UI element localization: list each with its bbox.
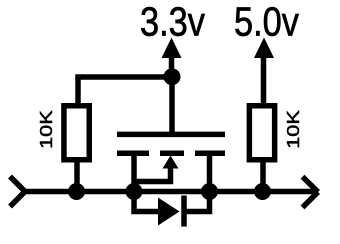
wire: body to source (134, 166, 171, 182)
transistor Q1 gate plate (117, 132, 225, 138)
wire: D1 cathode to drain (184, 192, 210, 212)
svg-text:10K: 10K (36, 110, 56, 149)
transistor Q1 source lead (131, 153, 137, 191)
input arrow (left end of signal line) (10, 177, 25, 207)
3.3v supply arrow (162, 38, 182, 78)
diode D1 (body diode) (158, 196, 184, 227)
5.0v supply arrow (254, 38, 274, 59)
wire: R2 top to 5.0v arrow (261, 58, 267, 103)
transistor Q1 drain lead (207, 153, 213, 191)
svg-text:10K: 10K (283, 110, 303, 149)
svg-text:5.0v: 5.0v (234, 0, 299, 45)
wire: gate stub (junction down to gate plate) (169, 77, 175, 137)
resistor R1 (64, 106, 89, 160)
node: drain junction (201, 183, 218, 200)
transistor Q1 body arrow (163, 156, 179, 169)
node: source junction (126, 183, 143, 200)
wire: R1 bottom to signal line (74, 160, 80, 192)
wire: source down to D1 anode (134, 192, 158, 212)
transistor Q1 channel segments (117, 151, 225, 157)
output arrow (right end of signal line) (303, 177, 319, 208)
node: R1 / signal junction (68, 183, 85, 200)
wire: 3.3v rail to R1 top (78, 77, 172, 103)
node: 3.3v / gate junction (164, 68, 181, 85)
wire: R2 bottom to signal line (260, 160, 266, 192)
wire: main signal line (left input to right output) (25, 189, 318, 195)
node: R2 / signal junction (254, 183, 271, 200)
resistor R2 (249, 106, 274, 160)
svg-text:3.3v: 3.3v (140, 0, 205, 45)
